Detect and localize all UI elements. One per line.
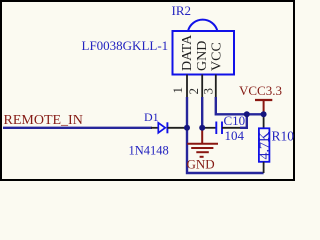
- resistor R10: [259, 114, 270, 173]
- wire pin1 down to main wire: [186, 97, 188, 128]
- ground: [187, 128, 219, 172]
- svg-text:LF0038GKLL-1: LF0038GKLL-1: [82, 38, 169, 53]
- junction node on GND net: [199, 125, 205, 131]
- capacitor C10: [202, 114, 247, 134]
- svg-text:REMOTE_IN: REMOTE_IN: [4, 113, 83, 128]
- svg-text:D1: D1: [144, 110, 159, 124]
- svg-text:VCC: VCC: [210, 42, 225, 71]
- svg-text:2: 2: [186, 88, 201, 95]
- wire REMOTE_IN: [3, 127, 152, 129]
- svg-text:GND: GND: [195, 41, 210, 71]
- border frame: [1, 1, 294, 180]
- pin 1 (black pin stub): [186, 75, 188, 99]
- svg-text:VCC3.3: VCC3.3: [239, 83, 282, 98]
- wire DATA down and along bottom to R10: [187, 128, 264, 173]
- svg-text:R10: R10: [272, 129, 295, 144]
- wire pin2 down to main wire: [201, 97, 203, 128]
- svg-text:1N4148: 1N4148: [129, 143, 169, 157]
- svg-text:C10: C10: [224, 113, 246, 128]
- wire pin3 down then right to VCC: [216, 97, 264, 114]
- pin 2 (black pin stub): [201, 75, 203, 99]
- diode D1: [151, 122, 187, 133]
- svg-text:104: 104: [225, 128, 245, 143]
- power symbol VCC3.3: [239, 83, 282, 115]
- svg-text:DATA: DATA: [180, 34, 195, 71]
- svg-text:1: 1: [170, 87, 185, 94]
- junction node on DATA net: [184, 125, 190, 131]
- junction node VCC/R10: [261, 111, 267, 117]
- IR receiver IR2 box: [173, 31, 235, 75]
- pin 3 (black pin stub): [215, 75, 217, 99]
- IR2 dome arc: [188, 20, 217, 31]
- svg-text:3: 3: [201, 88, 216, 95]
- svg-text:GND: GND: [187, 156, 215, 171]
- svg-text:4.7K: 4.7K: [257, 132, 272, 160]
- junction node VCC/C10: [244, 111, 250, 117]
- svg-text:IR2: IR2: [172, 3, 192, 18]
